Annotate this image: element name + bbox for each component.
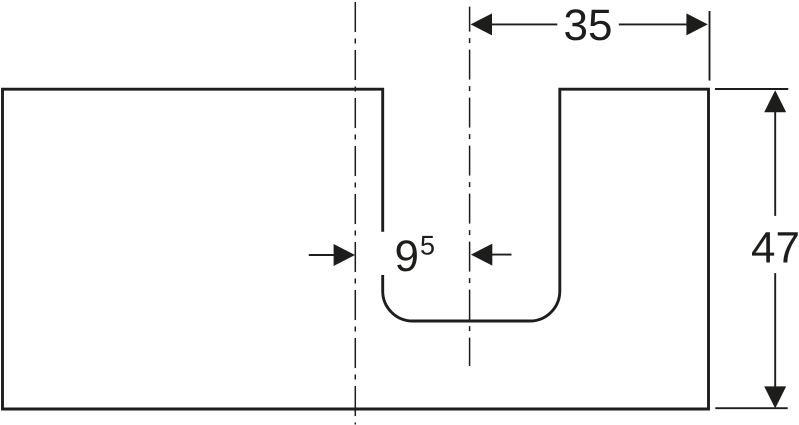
center line CL2 (notch axis / extension line) xyxy=(469,7,471,366)
svg-text:5: 5 xyxy=(420,231,435,261)
dimension line 35 right segment xyxy=(619,23,687,25)
arrowhead 47 top xyxy=(764,90,786,112)
part outline with U-notch xyxy=(3,89,709,409)
svg-text:9: 9 xyxy=(395,232,419,281)
arrowhead 9.5 pointing left xyxy=(471,244,492,266)
dimension line 47 upper segment xyxy=(774,112,776,216)
extension line top of 47 xyxy=(715,88,788,90)
arrowhead 35 right xyxy=(686,13,707,35)
arrowhead 9.5 pointing right xyxy=(334,244,355,266)
arrowhead 47 bottom xyxy=(764,386,786,408)
svg-text:35: 35 xyxy=(564,1,613,50)
dimension 9.5 right tail xyxy=(491,254,511,256)
dimension line 47 lower segment xyxy=(774,273,776,386)
extension line bottom of 47 xyxy=(715,407,787,409)
arrowhead 35 left xyxy=(471,13,492,35)
svg-text:47: 47 xyxy=(751,224,799,273)
dimension 9.5 left tail xyxy=(309,254,335,256)
center line CL1 (part axis) xyxy=(354,2,356,425)
extension line right of 35 xyxy=(709,11,711,81)
dimension line 35 left segment xyxy=(491,23,557,25)
